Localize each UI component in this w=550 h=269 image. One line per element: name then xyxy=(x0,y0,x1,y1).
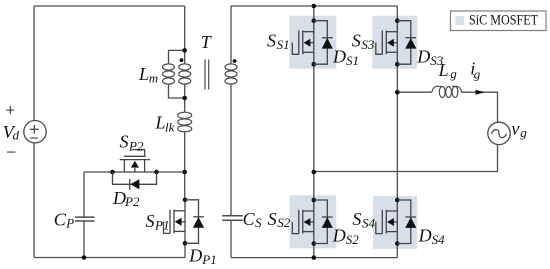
transistor SS2 xyxy=(292,198,316,246)
label SS2 xyxy=(268,209,291,230)
wire SP2 row right xyxy=(157,171,185,173)
SiC highlight box SS1 xyxy=(289,16,336,69)
svg-text:S4: S4 xyxy=(362,215,376,230)
wire secondary bottom rail xyxy=(231,257,397,259)
svg-text:S: S xyxy=(146,211,155,231)
wire primary branch top xyxy=(184,6,186,50)
svg-text:g: g xyxy=(450,66,457,81)
label Lm xyxy=(138,64,158,86)
junction node right leg mid xyxy=(395,90,400,95)
svg-text:L: L xyxy=(438,60,449,80)
svg-text:D: D xyxy=(416,46,430,66)
polarity dot secondary xyxy=(233,59,237,63)
label SS4 xyxy=(352,209,375,230)
label Vd xyxy=(3,122,20,143)
label DS3 xyxy=(416,46,444,68)
svg-text:P1: P1 xyxy=(154,217,169,232)
svg-text:C: C xyxy=(243,209,256,229)
inductor Llk coil xyxy=(178,112,192,132)
label Lg xyxy=(438,60,458,81)
body diode DS2 xyxy=(314,200,333,244)
svg-text:S3: S3 xyxy=(361,37,375,52)
wire output top xyxy=(397,92,497,122)
svg-text:P2: P2 xyxy=(128,139,144,154)
label CP xyxy=(54,209,75,230)
junction node Lm bottom xyxy=(182,96,187,101)
body diode DS1 xyxy=(314,21,333,64)
svg-text:D: D xyxy=(112,188,126,208)
svg-text:S4: S4 xyxy=(432,232,446,247)
capacitor CP xyxy=(75,217,95,221)
SiC highlight box SS2 xyxy=(290,195,337,248)
body diode DP2 xyxy=(113,172,157,190)
junction node left leg mid xyxy=(312,170,317,175)
label DP2 xyxy=(112,188,140,209)
svg-text:S2: S2 xyxy=(346,232,360,247)
SiC highlight box SS4 xyxy=(373,196,417,249)
svg-text:S: S xyxy=(352,209,361,229)
voltage source vg xyxy=(488,122,510,144)
svg-text:S: S xyxy=(120,132,129,152)
svg-text:S1: S1 xyxy=(346,53,359,68)
label CS xyxy=(243,209,262,230)
wire primary winding stubs xyxy=(184,50,186,98)
svg-text:C: C xyxy=(54,209,67,229)
transistor SP2 xyxy=(110,150,159,175)
label DS4 xyxy=(418,226,446,248)
label SS3 xyxy=(352,31,375,53)
svg-text:g: g xyxy=(520,125,527,140)
label vg xyxy=(511,118,527,140)
label DP1 xyxy=(188,245,216,267)
SiC highlight box SS3 xyxy=(372,16,417,69)
label DS1 xyxy=(332,46,359,68)
transistor SP1 xyxy=(164,198,188,246)
transformer T core xyxy=(205,60,209,90)
svg-text:S: S xyxy=(267,31,276,51)
svg-text:P1: P1 xyxy=(201,252,216,267)
svg-text:v: v xyxy=(511,118,519,138)
label Llk xyxy=(155,113,175,135)
svg-text:P: P xyxy=(65,216,74,231)
svg-text:m: m xyxy=(149,71,158,86)
svg-text:d: d xyxy=(13,128,20,143)
wire primary top rail xyxy=(34,5,185,7)
legend box xyxy=(451,11,547,31)
junction node Lm top xyxy=(182,48,187,53)
svg-text:S: S xyxy=(268,209,277,229)
wire primary bottom rail xyxy=(34,243,185,257)
transistor SS3 xyxy=(376,18,400,66)
wire Lm branch xyxy=(169,50,185,98)
svg-text:SiC MOSFET: SiC MOSFET xyxy=(469,13,538,29)
svg-text:lk: lk xyxy=(165,120,175,135)
svg-text:L: L xyxy=(138,64,149,84)
wire left source top xyxy=(33,6,35,121)
polarity dot primary xyxy=(180,58,184,62)
wire secondary top rail xyxy=(231,5,397,7)
svg-text:D: D xyxy=(332,226,346,246)
transistor SS4 xyxy=(376,198,400,246)
svg-text:S: S xyxy=(255,215,262,230)
label SP1 xyxy=(146,211,170,232)
svg-text:S: S xyxy=(352,31,361,51)
wire output return xyxy=(314,144,498,171)
svg-text:D: D xyxy=(332,46,346,66)
wire left leg xyxy=(313,6,315,258)
label SS1 xyxy=(267,31,290,53)
label ig xyxy=(470,59,481,82)
junction node CP bottom xyxy=(82,255,87,260)
transformer secondary winding xyxy=(225,64,237,84)
svg-text:S1: S1 xyxy=(277,37,290,52)
svg-text:L: L xyxy=(155,113,166,133)
wire left source bottom xyxy=(33,143,35,258)
wire right leg xyxy=(396,6,398,258)
capacitor CS xyxy=(222,216,242,220)
inductor Lg coil xyxy=(432,86,462,92)
svg-text:+: + xyxy=(4,100,16,120)
body diode DS4 xyxy=(397,200,416,244)
svg-text:D: D xyxy=(418,226,432,246)
svg-text:D: D xyxy=(188,245,202,265)
junction node left leg bottom xyxy=(312,255,317,260)
transformer primary winding xyxy=(179,64,191,84)
wire Llk branch xyxy=(184,98,186,200)
svg-text:P2: P2 xyxy=(124,194,140,209)
svg-text:S2: S2 xyxy=(277,215,291,230)
body diode DP1 xyxy=(185,200,204,244)
body diode DS3 xyxy=(397,21,416,64)
wire CP branch xyxy=(83,172,85,258)
junction node SP2 main xyxy=(182,170,187,175)
voltage source Vd xyxy=(24,121,46,143)
inductor Lm coil xyxy=(163,64,175,84)
current arrow ig xyxy=(476,90,486,95)
transistor SS1 xyxy=(292,18,316,66)
svg-text:−: − xyxy=(5,142,17,162)
label SP2 xyxy=(120,132,144,154)
junction node secondary rail top xyxy=(312,4,317,9)
label DS2 xyxy=(332,226,360,248)
wire SP2 row left xyxy=(84,171,113,173)
wire secondary winding branch xyxy=(230,6,232,258)
svg-text:g: g xyxy=(474,67,481,82)
